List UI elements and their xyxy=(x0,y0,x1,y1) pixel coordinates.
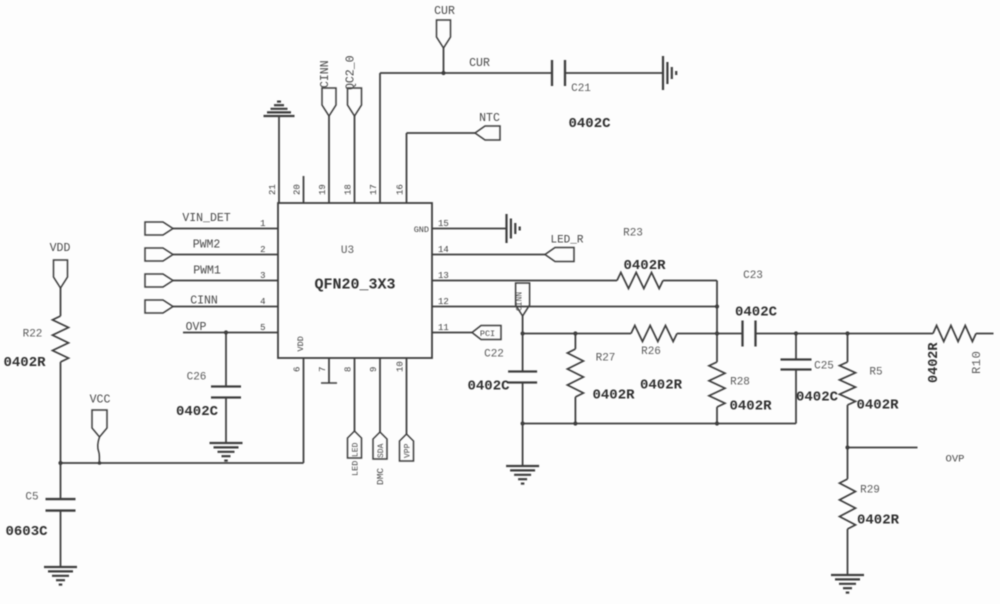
svg-text:VDD: VDD xyxy=(50,242,71,255)
svg-text:21: 21 xyxy=(268,184,278,195)
svg-text:OVP: OVP xyxy=(186,321,207,334)
svg-text:NTC: NTC xyxy=(479,112,500,125)
svg-text:R22: R22 xyxy=(23,329,43,341)
svg-text:0402C: 0402C xyxy=(735,305,778,321)
svg-text:QC2_0: QC2_0 xyxy=(345,55,358,90)
svg-text:0402R: 0402R xyxy=(729,399,772,415)
svg-text:0402C: 0402C xyxy=(467,379,510,395)
svg-text:0402R: 0402R xyxy=(592,388,635,404)
svg-text:C21: C21 xyxy=(571,83,591,95)
svg-text:R29: R29 xyxy=(860,485,880,497)
svg-text:0603C: 0603C xyxy=(5,524,48,540)
svg-text:LED_R: LED_R xyxy=(550,235,583,247)
svg-text:15: 15 xyxy=(438,219,449,229)
svg-text:20: 20 xyxy=(293,184,303,195)
svg-text:C23: C23 xyxy=(743,270,763,282)
svg-text:VPP: VPP xyxy=(404,443,413,458)
svg-text:U3: U3 xyxy=(341,245,354,257)
svg-text:CINN: CINN xyxy=(516,292,525,311)
svg-text:17: 17 xyxy=(369,184,379,195)
svg-text:0402R: 0402R xyxy=(623,258,666,274)
svg-text:R23: R23 xyxy=(623,228,643,240)
svg-text:0402R: 0402R xyxy=(856,398,899,414)
svg-text:LED: LED xyxy=(351,461,361,476)
svg-text:PWM2: PWM2 xyxy=(193,239,221,252)
svg-text:14: 14 xyxy=(438,245,449,255)
svg-text:0402C: 0402C xyxy=(176,404,219,420)
svg-text:CUR: CUR xyxy=(469,57,490,70)
svg-text:2: 2 xyxy=(260,245,265,255)
svg-text:PWM1: PWM1 xyxy=(193,265,221,278)
svg-text:11: 11 xyxy=(438,323,449,333)
svg-text:DMC: DMC xyxy=(375,468,386,485)
svg-text:0402R: 0402R xyxy=(3,355,46,371)
svg-text:R5: R5 xyxy=(869,367,882,379)
svg-text:0402R: 0402R xyxy=(640,378,683,394)
svg-text:R27: R27 xyxy=(596,353,616,365)
svg-text:10: 10 xyxy=(396,361,406,372)
svg-text:R10: R10 xyxy=(970,351,984,374)
svg-text:R26: R26 xyxy=(641,346,661,358)
svg-text:8: 8 xyxy=(344,367,354,372)
svg-text:0402C: 0402C xyxy=(568,116,611,132)
svg-text:16: 16 xyxy=(396,184,406,195)
svg-text:C26: C26 xyxy=(187,372,207,384)
svg-text:VCC: VCC xyxy=(90,394,111,407)
svg-text:VDD: VDD xyxy=(296,336,306,351)
svg-text:VIN_DET: VIN_DET xyxy=(182,212,230,225)
svg-text:PCI: PCI xyxy=(480,329,495,339)
svg-text:GND: GND xyxy=(414,225,429,235)
svg-text:C25: C25 xyxy=(814,361,834,373)
svg-text:12: 12 xyxy=(438,297,449,307)
svg-text:18: 18 xyxy=(344,184,354,195)
svg-text:13: 13 xyxy=(438,271,449,281)
svg-text:3: 3 xyxy=(260,271,265,281)
svg-text:R28: R28 xyxy=(730,377,750,389)
svg-text:4: 4 xyxy=(260,297,265,307)
svg-text:QFN20_3X3: QFN20_3X3 xyxy=(314,277,395,294)
svg-text:LED: LED xyxy=(352,442,361,457)
svg-text:CINN: CINN xyxy=(190,295,218,308)
svg-text:19: 19 xyxy=(318,184,328,195)
svg-text:0402R: 0402R xyxy=(927,342,942,383)
svg-text:OVP: OVP xyxy=(946,454,965,466)
svg-text:5: 5 xyxy=(260,323,265,333)
svg-text:CINN: CINN xyxy=(319,60,332,88)
svg-text:SDA: SDA xyxy=(377,443,386,458)
svg-text:0402C: 0402C xyxy=(796,390,839,406)
svg-text:CUR: CUR xyxy=(434,5,455,18)
svg-text:C22: C22 xyxy=(484,349,504,361)
svg-text:6: 6 xyxy=(293,367,303,372)
svg-text:1: 1 xyxy=(260,219,265,229)
svg-text:C5: C5 xyxy=(25,492,38,504)
svg-text:0402R: 0402R xyxy=(857,513,900,529)
svg-text:7: 7 xyxy=(318,367,328,372)
svg-text:9: 9 xyxy=(369,367,379,372)
